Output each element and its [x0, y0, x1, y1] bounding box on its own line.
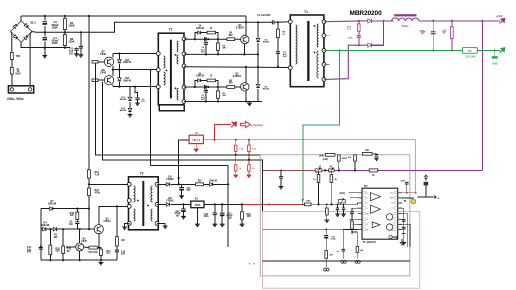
capacitor C10 — [116, 246, 118, 250]
diode D10 — [210, 183, 213, 187]
svg-text:1k2: 1k2 — [54, 237, 59, 239]
svg-text:CT: CT — [366, 224, 368, 226]
svg-text:560R: 560R — [342, 158, 348, 160]
capacitor C4 — [44, 32, 46, 36]
transistor Q1 — [241, 35, 249, 43]
wire to control — [227, 183, 229, 185]
resistor R32 sense — [302, 200, 304, 205]
svg-text:100n: 100n — [203, 216, 209, 218]
capacitor C7 — [207, 86, 209, 88]
resistor divider R lower B (red) — [248, 165, 251, 171]
resistor divider R upper B (red) — [248, 140, 250, 145]
ground arrow below IC — [401, 239, 403, 242]
wire mid rail (doubler tap) — [32, 22, 273, 32]
svg-text:560: 560 — [56, 251, 61, 253]
svg-text:+24V: +24V — [496, 14, 503, 18]
op-amp 1 inside TL494 — [371, 193, 381, 201]
svg-text:1N4148: 1N4148 — [196, 27, 205, 30]
component column near pins — [403, 208, 405, 242]
svg-text:10n: 10n — [69, 224, 74, 226]
diode D12 — [129, 102, 131, 108]
resistor R2 — [64, 16, 66, 19]
svg-text:TR1: TR1 — [16, 54, 21, 58]
svg-text:4,7k: 4,7k — [95, 173, 100, 176]
comparator inside TL494 — [372, 222, 380, 228]
svg-text:2kV: 2kV — [283, 56, 287, 58]
antenna symbol — [424, 175, 428, 181]
wire T3 secondary bottom ground — [157, 223, 165, 226]
wire 7805 gnd — [196, 208, 198, 225]
wire pin1 — [349, 192, 358, 194]
svg-text:C9013: C9013 — [104, 221, 112, 223]
capacitor C29 tap — [280, 170, 282, 176]
T1 terminals right — [322, 20, 326, 24]
resistor R31 (A wiper) — [330, 172, 332, 175]
wire purple feedback horizontal — [334, 169, 482, 171]
capacitor CY1 — [76, 47, 78, 50]
capacitor C16 — [178, 183, 180, 185]
diode D6 with resistor bypass — [194, 38, 196, 40]
diode D8 — [157, 203, 166, 205]
capacitor C5 snubber — [277, 38, 279, 52]
resistor R5 snubber — [277, 21, 279, 23]
wire GND rail (green) — [324, 49, 463, 51]
capacitor C2 (series) — [205, 37, 207, 41]
svg-text:C1: C1 — [391, 208, 393, 210]
wire PULS input — [179, 140, 189, 185]
ground (primary minus) — [44, 48, 46, 56]
svg-text:100k: 100k — [319, 156, 325, 158]
resistor R14 — [87, 188, 90, 196]
svg-text:1N4148: 1N4148 — [123, 79, 132, 82]
svg-text:230v- 50hz: 230v- 50hz — [7, 97, 24, 101]
capacitor C13 — [214, 203, 216, 205]
ground — [128, 115, 133, 117]
wire AC line 2 — [30, 32, 32, 88]
wire fan branch (red) — [214, 125, 231, 140]
resistor R13 — [62, 228, 64, 230]
svg-text:T1: T1 — [304, 10, 308, 14]
diode D9 — [157, 183, 166, 185]
svg-text:1N4148: 1N4148 — [48, 203, 57, 206]
wire VREF pin 14 — [402, 198, 413, 201]
capacitor C3 — [44, 16, 46, 21]
capacitor C12 — [182, 203, 184, 205]
capacitor CY2 — [80, 31, 82, 33]
solder specks — [249, 263, 250, 264]
resistor R15 — [89, 246, 97, 249]
regulator U2 78L12 — [189, 135, 203, 143]
svg-text:10R: 10R — [306, 200, 310, 202]
wire drive rail 3 — [113, 86, 158, 88]
svg-text:FR302: FR302 — [166, 200, 174, 202]
wire lower net — [262, 228, 343, 230]
svg-text:BA159: BA159 — [120, 109, 127, 112]
wire drive rail 1 — [113, 53, 158, 55]
resistor R30 (V wiper) — [318, 172, 320, 175]
resistor R24 (RT) — [351, 218, 353, 221]
thermistor TR1 — [11, 32, 12, 53]
wire output pins — [402, 214, 407, 247]
frame control section (gray) — [260, 155, 410, 276]
resistor R17 on feedback — [369, 169, 378, 172]
wire base net upper — [184, 38, 241, 40]
wire Q2 emitter — [245, 91, 247, 102]
wire secondary bottom (purple) — [324, 45, 368, 79]
resistor R4 — [227, 86, 235, 89]
svg-text:150K: 150K — [68, 39, 74, 43]
wire control line 2 (Q8 base drive) — [103, 81, 263, 211]
diode D3 — [257, 67, 259, 84]
capacitor C21 (CT) — [352, 207, 358, 209]
inductor L1 — [394, 14, 416, 16]
resistor R7 — [217, 87, 219, 91]
diode D14 — [118, 70, 120, 78]
wire +310V top rail — [21, 15, 246, 17]
wire to control (drive return) — [150, 70, 152, 166]
wire T2 bottom bracket — [159, 105, 184, 111]
svg-text:RT: RT — [366, 229, 368, 231]
svg-text:1kV: 1kV — [141, 101, 145, 103]
resistor R10 — [49, 228, 51, 230]
capacitor C31 — [343, 204, 345, 208]
trimpot P1 voltage — [315, 169, 322, 172]
ground TL494 pin 7 — [389, 235, 392, 238]
resistor R27 — [354, 155, 357, 161]
capacitor C8 — [135, 87, 138, 98]
svg-text:SinQ: SinQ — [340, 193, 345, 195]
svg-text:GND: GND — [492, 61, 498, 65]
op-amp 2 inside TL494 — [371, 205, 381, 213]
svg-text:470k: 470k — [95, 192, 101, 195]
resistor R25 on line1 — [325, 153, 335, 156]
svg-text:0,1u: 0,1u — [347, 29, 352, 31]
T1 terminals left — [288, 20, 292, 24]
transformer T2 — [158, 33, 184, 105]
wire left branch — [40, 209, 42, 261]
wire secondary top (purple) — [324, 20, 368, 23]
diode D5 with resistor bypass — [194, 86, 196, 88]
fuse F1 — [11, 59, 13, 67]
svg-text:250V: 250V — [15, 74, 21, 76]
T2 terminals right — [182, 37, 186, 41]
AC socket X1 — [8, 86, 33, 93]
wire sense row — [303, 203, 305, 205]
wire midpoint rail — [184, 66, 290, 68]
wire purple feedback vertical — [481, 21, 483, 171]
wire bridge negative to -rail — [21, 42, 70, 48]
ground — [99, 262, 104, 264]
svg-text:100n: 100n — [331, 239, 337, 241]
output transistor 1 inside TL494 — [386, 214, 392, 220]
resistor R18 — [76, 208, 78, 210]
svg-text:E13007: E13007 — [233, 76, 242, 78]
wire T3 bottom ground — [125, 223, 130, 227]
svg-text:T2: T2 — [169, 27, 173, 31]
wire rail to T3 primary — [89, 183, 129, 185]
transistor Q3 — [94, 225, 103, 234]
svg-text:50V: 50V — [201, 99, 205, 101]
wire +5V out — [204, 203, 243, 205]
wire — [88, 178, 90, 188]
transformer T3 — [129, 177, 159, 230]
bridge rectifier BL1 — [20, 16, 22, 21]
capacitor C18 output — [432, 21, 434, 31]
IC U3 TL494 — [362, 188, 398, 239]
svg-text:10R: 10R — [247, 216, 251, 218]
diode D7 — [50, 207, 53, 211]
diode D5 — [53, 227, 56, 231]
capacitor C11 — [40, 245, 42, 247]
diode D4 — [43, 227, 46, 231]
svg-text:50V: 50V — [187, 190, 191, 192]
transistor Q8 — [104, 76, 113, 85]
wire DTC pin — [349, 218, 358, 220]
ground GND (green) — [494, 50, 496, 56]
wire +5V red to control — [243, 203, 311, 205]
svg-text:1kV: 1kV — [69, 53, 74, 55]
wire bottom net — [262, 260, 410, 262]
svg-text:50V: 50V — [27, 252, 32, 254]
output arrow GND (green) — [500, 48, 505, 53]
diode D15 MBR20200 top — [368, 19, 372, 23]
svg-text:50V: 50V — [201, 52, 205, 54]
test point (yellow) — [411, 199, 416, 204]
resistor R16 — [116, 206, 118, 236]
svg-text:150K: 150K — [68, 23, 74, 27]
svg-text:TL494CN: TL494CN — [363, 240, 376, 244]
svg-text:(mA): (mA) — [323, 158, 329, 161]
diode D2 — [257, 22, 259, 38]
svg-text:100n: 100n — [401, 181, 406, 183]
wire drive rail 2 — [113, 69, 158, 71]
capacitor C19 at VCC — [406, 184, 408, 193]
TL494 pins — [358, 192, 403, 194]
wire green sense branch — [303, 50, 340, 199]
T1 secondary winding — [317, 24, 318, 47]
wire bottom rail — [41, 259, 117, 261]
T3 secondary winding — [151, 186, 153, 202]
T3 primary winding — [134, 186, 136, 202]
snubber R6 C17 (purple) — [358, 20, 360, 22]
resistor R22 — [241, 203, 243, 205]
arrow to fan (red) — [231, 122, 236, 128]
capacitor C3b (series) — [205, 85, 207, 89]
svg-text:16V: 16V — [421, 33, 425, 35]
resistor R33 — [326, 204, 328, 208]
wire T1 tap stubs — [324, 35, 330, 37]
svg-text:78L12: 78L12 — [192, 138, 200, 142]
svg-text:C1 1u2 250V: C1 1u2 250V — [257, 15, 271, 17]
svg-text:C945: C945 — [100, 72, 107, 75]
resistor divider R lower A (red) — [234, 165, 237, 171]
capacitor C14 aux — [178, 177, 180, 179]
capacitor C9 — [76, 220, 78, 222]
capacitor C22 bottom — [342, 249, 346, 251]
svg-text:KD105: KD105 — [263, 89, 270, 91]
resistor divider R upper A (red) — [235, 140, 237, 145]
T2 secondary winding — [177, 41, 178, 52]
wire bottom rail -310V — [184, 101, 262, 103]
resistor R34 — [325, 251, 328, 259]
svg-text:1+: 1+ — [366, 193, 368, 195]
svg-text:RS: RS — [468, 49, 472, 53]
wire test point — [418, 196, 434, 198]
capacitor C30 — [337, 204, 339, 208]
transistor Q7 — [104, 57, 113, 66]
resistor base Q7 — [92, 61, 98, 64]
resistor R26 — [338, 155, 341, 161]
ground (bottom rail) — [249, 102, 251, 104]
svg-text:1N4148: 1N4148 — [209, 179, 218, 182]
wire fan supply (red) — [203, 139, 415, 141]
svg-text:7805: 7805 — [195, 203, 201, 207]
resistor R11 — [87, 170, 90, 178]
svg-text:16V: 16V — [228, 218, 232, 220]
svg-text:R15 10R: R15 10R — [89, 252, 98, 254]
wire mid rail (Q1 emitter) — [184, 53, 258, 56]
wire output rail (purple) — [419, 20, 500, 22]
svg-text:C945: C945 — [81, 240, 87, 243]
svg-text:BL1: BL1 — [31, 21, 37, 25]
transistor Q2 — [241, 83, 249, 91]
svg-text:200V: 200V — [52, 41, 58, 45]
wire green sense end — [302, 199, 304, 201]
svg-text:FR302: FR302 — [166, 179, 174, 181]
fuse F2 small — [424, 182, 429, 186]
trimpot P2 current — [329, 169, 335, 172]
resistor R8 — [217, 39, 219, 43]
T1 primary winding — [296, 25, 298, 64]
wire aux line3 — [151, 165, 229, 167]
T2 terminals left — [156, 52, 160, 56]
resistor R21 — [196, 183, 204, 186]
wire VCC pin 12 — [402, 192, 416, 194]
svg-text:1N4148: 1N4148 — [41, 224, 50, 227]
wire startup vertical — [88, 15, 90, 17]
capacitor C6 — [207, 38, 209, 40]
wire node D7 — [41, 208, 89, 210]
resistor R19 bleeder — [451, 21, 453, 27]
capacitor C25 — [372, 153, 377, 156]
diode D11 — [129, 87, 131, 97]
svg-text:C945: C945 — [100, 53, 107, 56]
svg-text:REF: REF — [390, 198, 393, 200]
wire control line 1 (Q7 base drive) — [96, 63, 261, 155]
svg-text:BA159: BA159 — [120, 98, 127, 101]
T3 terminals — [127, 182, 131, 186]
shunt resistor RS (green box) — [462, 48, 477, 54]
transistor Q4 — [76, 243, 84, 251]
frame output section (pink) — [262, 211, 419, 288]
svg-text:T3: T3 — [140, 171, 144, 175]
wire node D4 — [41, 228, 95, 230]
svg-text:16V: 16V — [176, 216, 180, 218]
svg-text:1,2R 10W: 1,2R 10W — [465, 56, 477, 59]
output arrow +24V — [500, 18, 505, 23]
svg-text:120: 120 — [70, 215, 75, 217]
capacitor C15 — [221, 203, 223, 205]
svg-text:KD105: KD105 — [263, 42, 270, 44]
diode D13 — [118, 54, 120, 60]
resistor R36 bottom — [356, 247, 359, 253]
resistor R3 — [64, 32, 66, 34]
svg-text:200V: 200V — [52, 25, 58, 29]
svg-text:1N4148: 1N4148 — [123, 61, 132, 64]
wire base net lower — [184, 86, 241, 88]
capacitor C19 — [325, 229, 327, 235]
svg-text:к кулеру: к кулеру — [251, 123, 264, 127]
trimpot P3 — [338, 200, 345, 203]
svg-text:1N4148: 1N4148 — [196, 75, 205, 78]
capacitor C1 (series coupling) — [272, 20, 274, 24]
wire — [88, 196, 90, 230]
wire pin2 — [350, 197, 358, 199]
diode D16 MBR20200 bottom — [368, 43, 372, 47]
ground (oval) — [355, 260, 358, 263]
regulator IC1 7805 — [191, 201, 204, 208]
ground (oval) — [341, 260, 344, 263]
wire Q2 collector to midpoint — [245, 67, 247, 83]
T2 primary winding — [164, 56, 166, 68]
wire midpoint link — [257, 54, 259, 66]
resistor R9 — [227, 38, 235, 41]
svg-text:100n: 100n — [348, 38, 354, 40]
resistor R12 — [99, 248, 101, 250]
resistor base Q8 — [92, 79, 98, 82]
resistor R28 on line1 — [362, 152, 372, 155]
ground U2 (red) — [195, 144, 197, 149]
wire Q1 collector — [245, 16, 247, 36]
svg-text:2+: 2+ — [366, 203, 368, 205]
output transistor 2 inside TL494 — [386, 224, 392, 230]
transformer T1 — [290, 15, 324, 87]
svg-text:MBR20200: MBR20200 — [350, 10, 383, 17]
svg-text:30uH: 30uH — [402, 24, 409, 28]
svg-text:DT: DT — [366, 219, 368, 221]
svg-text:E13007: E13007 — [236, 28, 245, 30]
arrow +5V small — [432, 196, 437, 199]
